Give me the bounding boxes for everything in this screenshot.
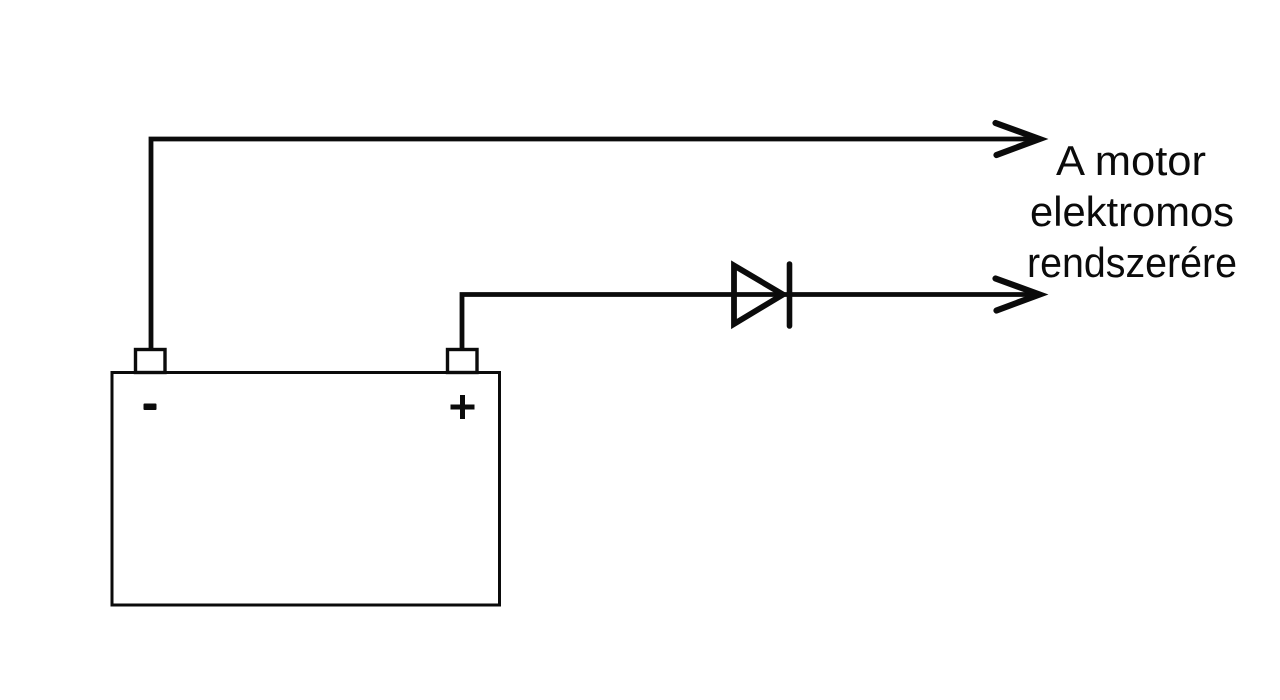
battery positive terminal post: [448, 350, 478, 373]
arrowhead bottom: [996, 279, 1040, 311]
label: A motor elektromos rendszerére: [1027, 137, 1237, 286]
svg-text:A motor: A motor: [1056, 137, 1206, 184]
battery body: [112, 373, 500, 606]
diode D1 cathode bar: [787, 264, 793, 326]
battery negative terminal post: [136, 350, 166, 373]
minus label on battery: [144, 404, 157, 411]
svg-text:elektromos: elektromos: [1030, 188, 1234, 235]
diode D1 triangle (anode): [734, 266, 783, 325]
wire: negative terminal up and right to top arrow: [151, 139, 1041, 352]
plus label on battery: [451, 395, 475, 419]
wire: positive terminal up and right to diode/arrow: [462, 295, 1041, 353]
arrowhead top (to motor electrical system): [996, 123, 1040, 155]
svg-text:rendszerére: rendszerére: [1027, 239, 1237, 286]
